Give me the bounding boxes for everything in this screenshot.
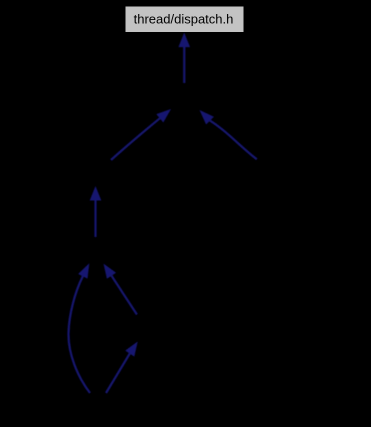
- wire edge G->F: [106, 342, 138, 394]
- wire edge C->A: [200, 110, 257, 159]
- node root: thread/dispatch.h: [126, 7, 244, 33]
- wire edge B->A: [111, 109, 171, 160]
- wire edge D->B: [90, 186, 102, 237]
- svg-text:thread/dispatch.h: thread/dispatch.h: [134, 12, 234, 27]
- wire edge F->D: [104, 264, 137, 315]
- wire edge A->root: [178, 33, 190, 83]
- wire edge G->D (curved): [68, 263, 90, 393]
